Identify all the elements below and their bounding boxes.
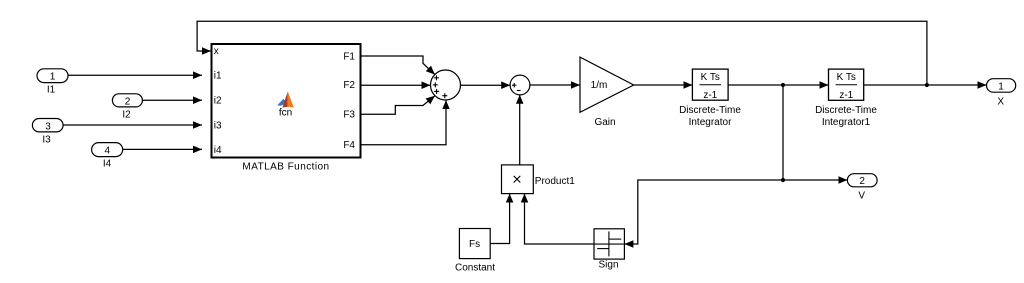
svg-text:F2: F2 bbox=[343, 80, 355, 91]
svg-text:Fs: Fs bbox=[469, 239, 480, 250]
svg-text:1/m: 1/m bbox=[591, 80, 608, 91]
svg-text:1: 1 bbox=[998, 81, 1004, 92]
svg-text:fcn: fcn bbox=[279, 108, 292, 119]
svg-text:i2: i2 bbox=[214, 96, 222, 107]
svg-text:Integrator: Integrator bbox=[689, 117, 732, 128]
svg-text:Constant: Constant bbox=[455, 263, 495, 274]
svg-text:X: X bbox=[997, 97, 1004, 108]
svg-text:4: 4 bbox=[105, 146, 111, 157]
svg-text:Integrator1: Integrator1 bbox=[822, 117, 871, 128]
svg-text:Sign: Sign bbox=[598, 259, 618, 270]
svg-text:1: 1 bbox=[50, 72, 56, 83]
svg-text:2: 2 bbox=[859, 176, 865, 187]
svg-text:K Ts: K Ts bbox=[701, 72, 720, 83]
svg-text:MATLAB Function: MATLAB Function bbox=[242, 161, 329, 172]
svg-text:Discrete-Time: Discrete-Time bbox=[815, 105, 877, 116]
svg-text:F4: F4 bbox=[343, 140, 355, 151]
svg-text:Product1: Product1 bbox=[535, 176, 575, 187]
svg-text:3: 3 bbox=[45, 121, 51, 132]
svg-text:Gain: Gain bbox=[594, 117, 615, 128]
svg-text:z-1: z-1 bbox=[839, 90, 853, 101]
svg-text:z-1: z-1 bbox=[703, 90, 717, 101]
svg-text:I4: I4 bbox=[103, 159, 112, 170]
svg-text:i3: i3 bbox=[214, 120, 222, 131]
svg-text:K Ts: K Ts bbox=[837, 72, 856, 83]
svg-text:x: x bbox=[214, 46, 219, 57]
svg-text:I1: I1 bbox=[47, 85, 56, 96]
svg-text:I2: I2 bbox=[122, 110, 131, 121]
svg-text:F3: F3 bbox=[343, 110, 355, 121]
svg-text:F1: F1 bbox=[343, 51, 355, 62]
svg-text:i1: i1 bbox=[214, 71, 222, 82]
svg-text:2: 2 bbox=[125, 97, 131, 108]
svg-text:I3: I3 bbox=[42, 134, 51, 145]
svg-text:Discrete-Time: Discrete-Time bbox=[679, 105, 741, 116]
svg-text:i4: i4 bbox=[214, 145, 222, 156]
svg-text:V: V bbox=[858, 191, 865, 202]
